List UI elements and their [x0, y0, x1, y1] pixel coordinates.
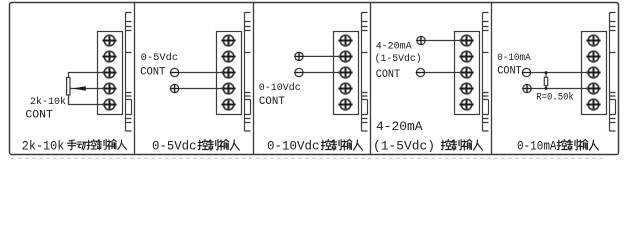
svg-text:CONT: CONT [497, 65, 522, 77]
wire plus to TB4-1 [425, 40, 461, 42]
potentiometer 2k-10k body [67, 78, 70, 96]
svg-text:4-20mA: 4-20mA [376, 41, 413, 53]
svg-text:(1-5Vdc): (1-5Vdc) [375, 53, 422, 65]
screw terminal TB2-2 [221, 51, 235, 62]
svg-text:2k-10k: 2k-10k [22, 140, 65, 154]
wire minus to TB5-3 [531, 72, 589, 74]
section divider 1 [134, 3, 136, 155]
wire minus to TB3-3 [303, 72, 340, 74]
screw terminal TB1-4 [102, 83, 116, 94]
screw terminal TB2-4 [221, 83, 235, 94]
terminal block TB2 [217, 32, 242, 115]
wire pot top to TB1-3 [69, 73, 105, 78]
source minus (4-20mA) [416, 68, 425, 76]
screw terminal TB5-1 [586, 35, 600, 46]
source plus (0-10Vdc) [294, 52, 303, 61]
junction node bottom of R [545, 87, 548, 90]
wire plus to TB5-4 [531, 88, 588, 90]
section divider 2 [253, 3, 255, 155]
screw terminal TB5-5 [586, 99, 600, 110]
screw terminal TB3-5 [338, 99, 352, 110]
mounting comb 4 (unit edge profile) [483, 13, 489, 132]
screw terminal TB5-4 [586, 83, 600, 94]
wiper arrow wire to TB1-4 [70, 86, 104, 91]
terminal block TB3 [334, 32, 359, 115]
screw terminal TB4-1 [459, 35, 473, 46]
source minus (0-10mA) [522, 68, 531, 76]
wire minus to TB4-3 [425, 72, 462, 74]
caption: 0-10mA control input [517, 140, 598, 154]
screw terminal TB3-1 [338, 35, 352, 46]
screw terminal TB3-3 [338, 67, 352, 78]
screw terminal TB4-5 [459, 99, 473, 110]
mounting comb 3 (unit edge profile) [362, 13, 368, 132]
svg-text:2k-10k: 2k-10k [30, 96, 66, 108]
wire pot bottom to TB1-5 [69, 95, 105, 105]
mounting comb 2 (unit edge profile) [245, 13, 251, 132]
svg-text:0-5Vdc: 0-5Vdc [141, 52, 179, 64]
section divider 4 [491, 3, 493, 155]
screw terminal TB3-2 [338, 51, 352, 62]
screw terminal TB4-3 [459, 67, 473, 78]
resistor R=0.50k body [544, 77, 547, 85]
screw terminal TB4-4 [459, 83, 473, 94]
wire plus to TB3-2 [303, 55, 340, 57]
svg-text:0-5Vdc: 0-5Vdc [152, 140, 197, 154]
screw terminal TB1-2 [102, 51, 116, 62]
resistor leads [545, 73, 547, 78]
bottom dashed rule [11, 157, 604, 159]
screw terminal TB3-4 [338, 83, 352, 94]
svg-text:R=0.50k: R=0.50k [536, 91, 574, 103]
screw terminal TB5-3 [586, 67, 600, 78]
svg-text:0-10mA: 0-10mA [517, 140, 557, 154]
screw terminal TB2-1 [221, 35, 235, 46]
caption: 0-5Vdc control input [152, 140, 239, 154]
caption: 0-10Vdc control input [267, 139, 362, 153]
caption line 2: (1-5Vdc) control input [373, 140, 482, 154]
wire plus to TB2-4 [179, 88, 224, 90]
svg-text:CONT: CONT [376, 69, 401, 81]
svg-text:CONT: CONT [140, 66, 165, 78]
terminal block TB4 [455, 32, 480, 115]
wire minus to TB2-3 [179, 72, 224, 74]
screw terminal TB2-5 [221, 99, 235, 110]
svg-text:0-10Vdc: 0-10Vdc [267, 139, 320, 153]
svg-text:CONT: CONT [25, 109, 53, 121]
screw terminal TB1-1 [102, 35, 116, 46]
terminal block TB1 [98, 32, 123, 115]
caption: 2k-10k manual control input [22, 140, 127, 154]
screw terminal TB1-3 [102, 67, 116, 78]
junction node top of R [545, 71, 548, 74]
screw terminal TB2-3 [221, 67, 235, 78]
source plus (0-5Vdc) [170, 84, 179, 93]
svg-text:0-10Vdc: 0-10Vdc [259, 82, 301, 94]
mounting comb 5 (unit edge profile) [610, 13, 616, 132]
screw terminal TB1-5 [102, 99, 116, 110]
mounting comb 1 (unit edge profile) [126, 13, 132, 132]
section divider 3 [370, 3, 372, 155]
screw terminal TB4-2 [459, 51, 473, 62]
screw terminal TB5-2 [586, 51, 600, 62]
terminal block TB5 [582, 32, 607, 115]
source minus (0-10Vdc) [294, 68, 303, 76]
svg-text:0-10mA: 0-10mA [497, 52, 531, 64]
source plus (4-20mA) [416, 36, 425, 45]
outer frame [10, 3, 619, 155]
source plus (0-10mA) [522, 84, 531, 93]
svg-text:4-20mA: 4-20mA [376, 120, 423, 134]
svg-text:CONT: CONT [259, 96, 285, 108]
svg-text:(1-5Vdc): (1-5Vdc) [373, 140, 435, 154]
source minus (0-5Vdc) [170, 68, 179, 76]
